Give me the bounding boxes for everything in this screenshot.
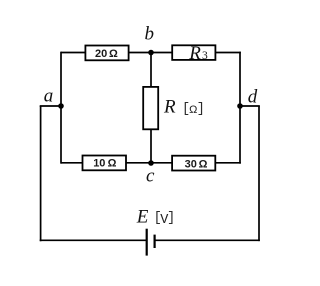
node b junction dot [148,50,154,56]
svg-text:]: ] [167,211,175,226]
wire battery left horizontal [40,239,147,241]
resistor R3 box [172,45,215,60]
svg-text:R: R [188,43,201,64]
wire outer right vertical [258,106,260,241]
node d junction dot [237,103,243,109]
wire node a to outer left [40,105,61,107]
svg-text:20Ω: 20Ω [95,48,118,60]
svg-text:d: d [248,87,258,108]
svg-text:]: ] [197,102,205,117]
resistor 30ohm box [172,156,215,171]
wire outer left vertical [40,106,42,241]
svg-text:3: 3 [202,50,208,62]
svg-text:10Ω: 10Ω [93,157,116,169]
resistor 20ohm box [85,46,128,61]
wire bottom rail left corner to 10ohm [61,162,83,164]
wire middle vertical R box to node c [150,129,152,163]
resistor R vertical box [143,87,158,129]
wire top rail left segment a-corner to 20ohm [61,52,85,54]
svg-text:30Ω: 30Ω [185,158,208,170]
wire bottom rail 30ohm to right corner [216,162,241,164]
wire left inner vertical through node a [60,52,62,164]
wire top rail 20ohm to R3 through node b [129,52,173,54]
wire bottom rail 10ohm to 30ohm through node c [127,162,173,164]
svg-text:c: c [146,166,155,187]
battery E long plate [146,229,148,256]
resistor 10ohm box [83,156,127,171]
svg-text:a: a [44,86,54,107]
svg-text:b: b [145,24,155,45]
wire middle vertical node b to R box [150,53,152,88]
wire top rail R3 to right corner [216,52,241,54]
wire node d to outer right [240,105,260,107]
battery E short plate [154,235,156,248]
node a junction dot [58,103,64,109]
node c junction dot [148,160,154,166]
wire right inner vertical through node d [239,52,241,164]
svg-text:E: E [136,206,149,227]
svg-text:R: R [163,97,176,118]
wire battery right horizontal [155,239,260,241]
